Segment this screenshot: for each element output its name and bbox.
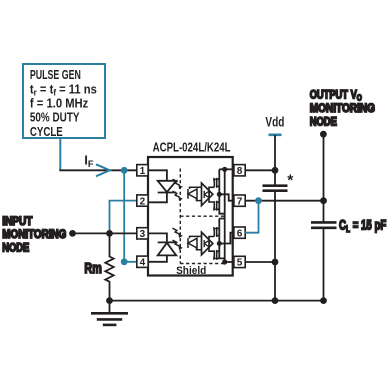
svg-text:1: 1 bbox=[140, 166, 146, 177]
Vdd supply terminal bar (teal) bbox=[269, 134, 282, 137]
svg-text:50% DUTY: 50% DUTY bbox=[30, 111, 80, 125]
amplifier channel 2 inner element bbox=[204, 240, 209, 247]
wire ground bus bbox=[110, 300, 324, 302]
MOSFET pair output channel 1 bbox=[209, 178, 219, 212]
node pin8 to Vdd junction bbox=[272, 167, 279, 174]
svg-text:6: 6 bbox=[237, 228, 243, 239]
wire input line to pin 3 bbox=[73, 232, 138, 234]
wire channel 2 FET column bbox=[219, 219, 224, 259]
amplifier channel 2 bbox=[202, 232, 213, 255]
wire Vdd vertical lower bbox=[274, 191, 276, 301]
node pin5 junction bbox=[272, 259, 279, 266]
shield dashed boundary bottom bbox=[180, 263, 226, 265]
svg-text:MONITORING: MONITORING bbox=[310, 101, 375, 115]
svg-text:MONITORING: MONITORING bbox=[2, 227, 66, 241]
svg-text:Shield: Shield bbox=[176, 265, 206, 277]
svg-text:4: 4 bbox=[140, 258, 146, 269]
wire pin 7 to pin 6 (teal) bbox=[245, 201, 258, 233]
node input monitoring terminal bbox=[69, 230, 76, 237]
node channel 1 output bbox=[217, 192, 222, 197]
wire pin 8 to Vdd bbox=[245, 169, 275, 171]
pin 8 bbox=[234, 165, 245, 178]
light arrows channel 2 bbox=[173, 228, 183, 250]
MOSFET pair output channel 2 bbox=[209, 227, 219, 261]
pin 2 bbox=[137, 195, 148, 208]
wire pulse gen output (teal) bbox=[59, 139, 61, 170]
amplifier channel 1 inner element bbox=[204, 191, 209, 198]
node bypass line to ground bus bbox=[272, 297, 279, 304]
wire VDD rail internal bbox=[224, 169, 226, 262]
pin 7 bbox=[234, 195, 245, 208]
light arrows channel 1 bbox=[173, 179, 183, 201]
wire pin 5 internal bbox=[225, 261, 234, 263]
wire pin 5 to ground line bbox=[245, 261, 275, 263]
LED channel 2 bbox=[148, 233, 176, 261]
wire IF junction to pin 4 (teal) bbox=[124, 170, 137, 261]
svg-text:INPUT: INPUT bbox=[2, 214, 33, 228]
wire channel 1 output jog to pin 7 bbox=[219, 194, 234, 200]
svg-text:CYCLE: CYCLE bbox=[30, 125, 63, 139]
svg-text:NODE: NODE bbox=[310, 114, 337, 128]
svg-text:Vdd: Vdd bbox=[265, 113, 284, 129]
capacitor bypass bbox=[263, 186, 288, 191]
pin 4 bbox=[137, 256, 148, 269]
node CL to ground bus bbox=[320, 297, 327, 304]
node output monitoring terminal bbox=[320, 131, 327, 138]
svg-text:3: 3 bbox=[140, 229, 146, 240]
node junction IF to pin4 (blue dot) bbox=[121, 167, 128, 174]
pin 1 bbox=[137, 165, 148, 178]
node pin4 corner (blue dot) bbox=[121, 258, 128, 265]
arrow IF current direction bbox=[96, 164, 110, 176]
wire channel 2 output jog to pin 6 bbox=[219, 233, 234, 244]
IC U1 body ACPL-024L/K24L bbox=[148, 157, 233, 276]
svg-text:2: 2 bbox=[140, 196, 146, 207]
wire Vdd vertical upper bbox=[274, 135, 276, 186]
pin 3 bbox=[137, 228, 148, 241]
svg-text:CL = 15 pF: CL = 15 pF bbox=[339, 217, 387, 235]
shield dashed boundary vertical bbox=[179, 169, 181, 264]
svg-text:Rm: Rm bbox=[84, 260, 101, 277]
svg-text:5: 5 bbox=[237, 258, 243, 269]
svg-text:7: 7 bbox=[237, 197, 243, 208]
label INPUT MONITORING NODE bbox=[2, 214, 66, 255]
svg-text:ACPL-024L/K24L: ACPL-024L/K24L bbox=[153, 140, 231, 155]
node pin7 blue junction bbox=[255, 197, 262, 204]
node input junction bbox=[106, 230, 113, 237]
svg-text:IF: IF bbox=[84, 153, 94, 169]
node rail bottom bbox=[222, 259, 227, 264]
svg-text:f = 1.0 MHz: f = 1.0 MHz bbox=[30, 97, 88, 111]
label OUTPUT VO MONITORING NODE bbox=[310, 87, 375, 128]
wire channel 1 FET column bbox=[219, 169, 224, 213]
LED channel 1 bbox=[148, 170, 176, 202]
wire IF line bbox=[59, 169, 137, 171]
node channel 2 output bbox=[217, 241, 222, 246]
shield dashed boundary mid bbox=[180, 215, 226, 217]
pin 6 bbox=[234, 227, 245, 239]
wire pin 8 internal bbox=[219, 168, 234, 170]
wire output node vertical upper bbox=[323, 134, 325, 222]
wire pin 7 output line bbox=[245, 200, 323, 202]
capacitor CL bbox=[311, 222, 337, 227]
svg-text:8: 8 bbox=[237, 166, 243, 177]
node VDD rail top bbox=[222, 167, 227, 172]
ground symbol bbox=[91, 301, 128, 325]
resistor Rm bbox=[105, 233, 113, 300]
svg-text:NODE: NODE bbox=[2, 241, 29, 255]
node output line junction bbox=[320, 197, 327, 204]
svg-text:*: * bbox=[287, 173, 294, 190]
wire output node vertical lower bbox=[323, 228, 325, 301]
photodiode channel 1 bbox=[188, 187, 202, 200]
svg-text:PULSE GEN: PULSE GEN bbox=[30, 68, 81, 82]
wire pin 2 to input node (teal) bbox=[110, 201, 138, 234]
photodiode channel 2 bbox=[188, 236, 202, 249]
amplifier channel 1 bbox=[202, 183, 213, 206]
pin 5 bbox=[234, 256, 245, 268]
pulse generator box bbox=[23, 64, 105, 139]
svg-text:tr = tf = 11 ns: tr = tf = 11 ns bbox=[30, 82, 97, 97]
node ground junction bbox=[106, 297, 113, 304]
